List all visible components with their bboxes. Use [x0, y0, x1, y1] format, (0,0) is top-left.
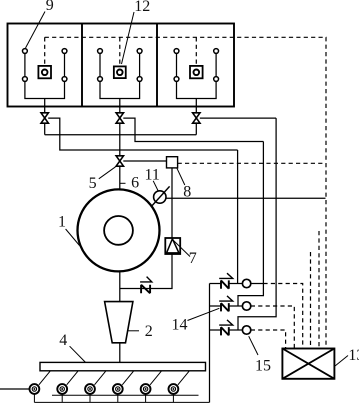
svg-text:15: 15: [255, 358, 271, 375]
svg-text:5: 5: [89, 175, 97, 192]
svg-text:12: 12: [134, 0, 150, 15]
svg-text:14: 14: [172, 317, 188, 334]
svg-text:13: 13: [348, 347, 359, 364]
svg-text:4: 4: [59, 332, 67, 349]
svg-text:6: 6: [131, 175, 139, 192]
svg-text:1: 1: [58, 214, 66, 231]
svg-text:11: 11: [145, 166, 160, 183]
svg-text:7: 7: [189, 250, 197, 267]
svg-text:2: 2: [145, 323, 153, 340]
svg-text:8: 8: [183, 183, 191, 200]
svg-text:9: 9: [46, 0, 54, 14]
